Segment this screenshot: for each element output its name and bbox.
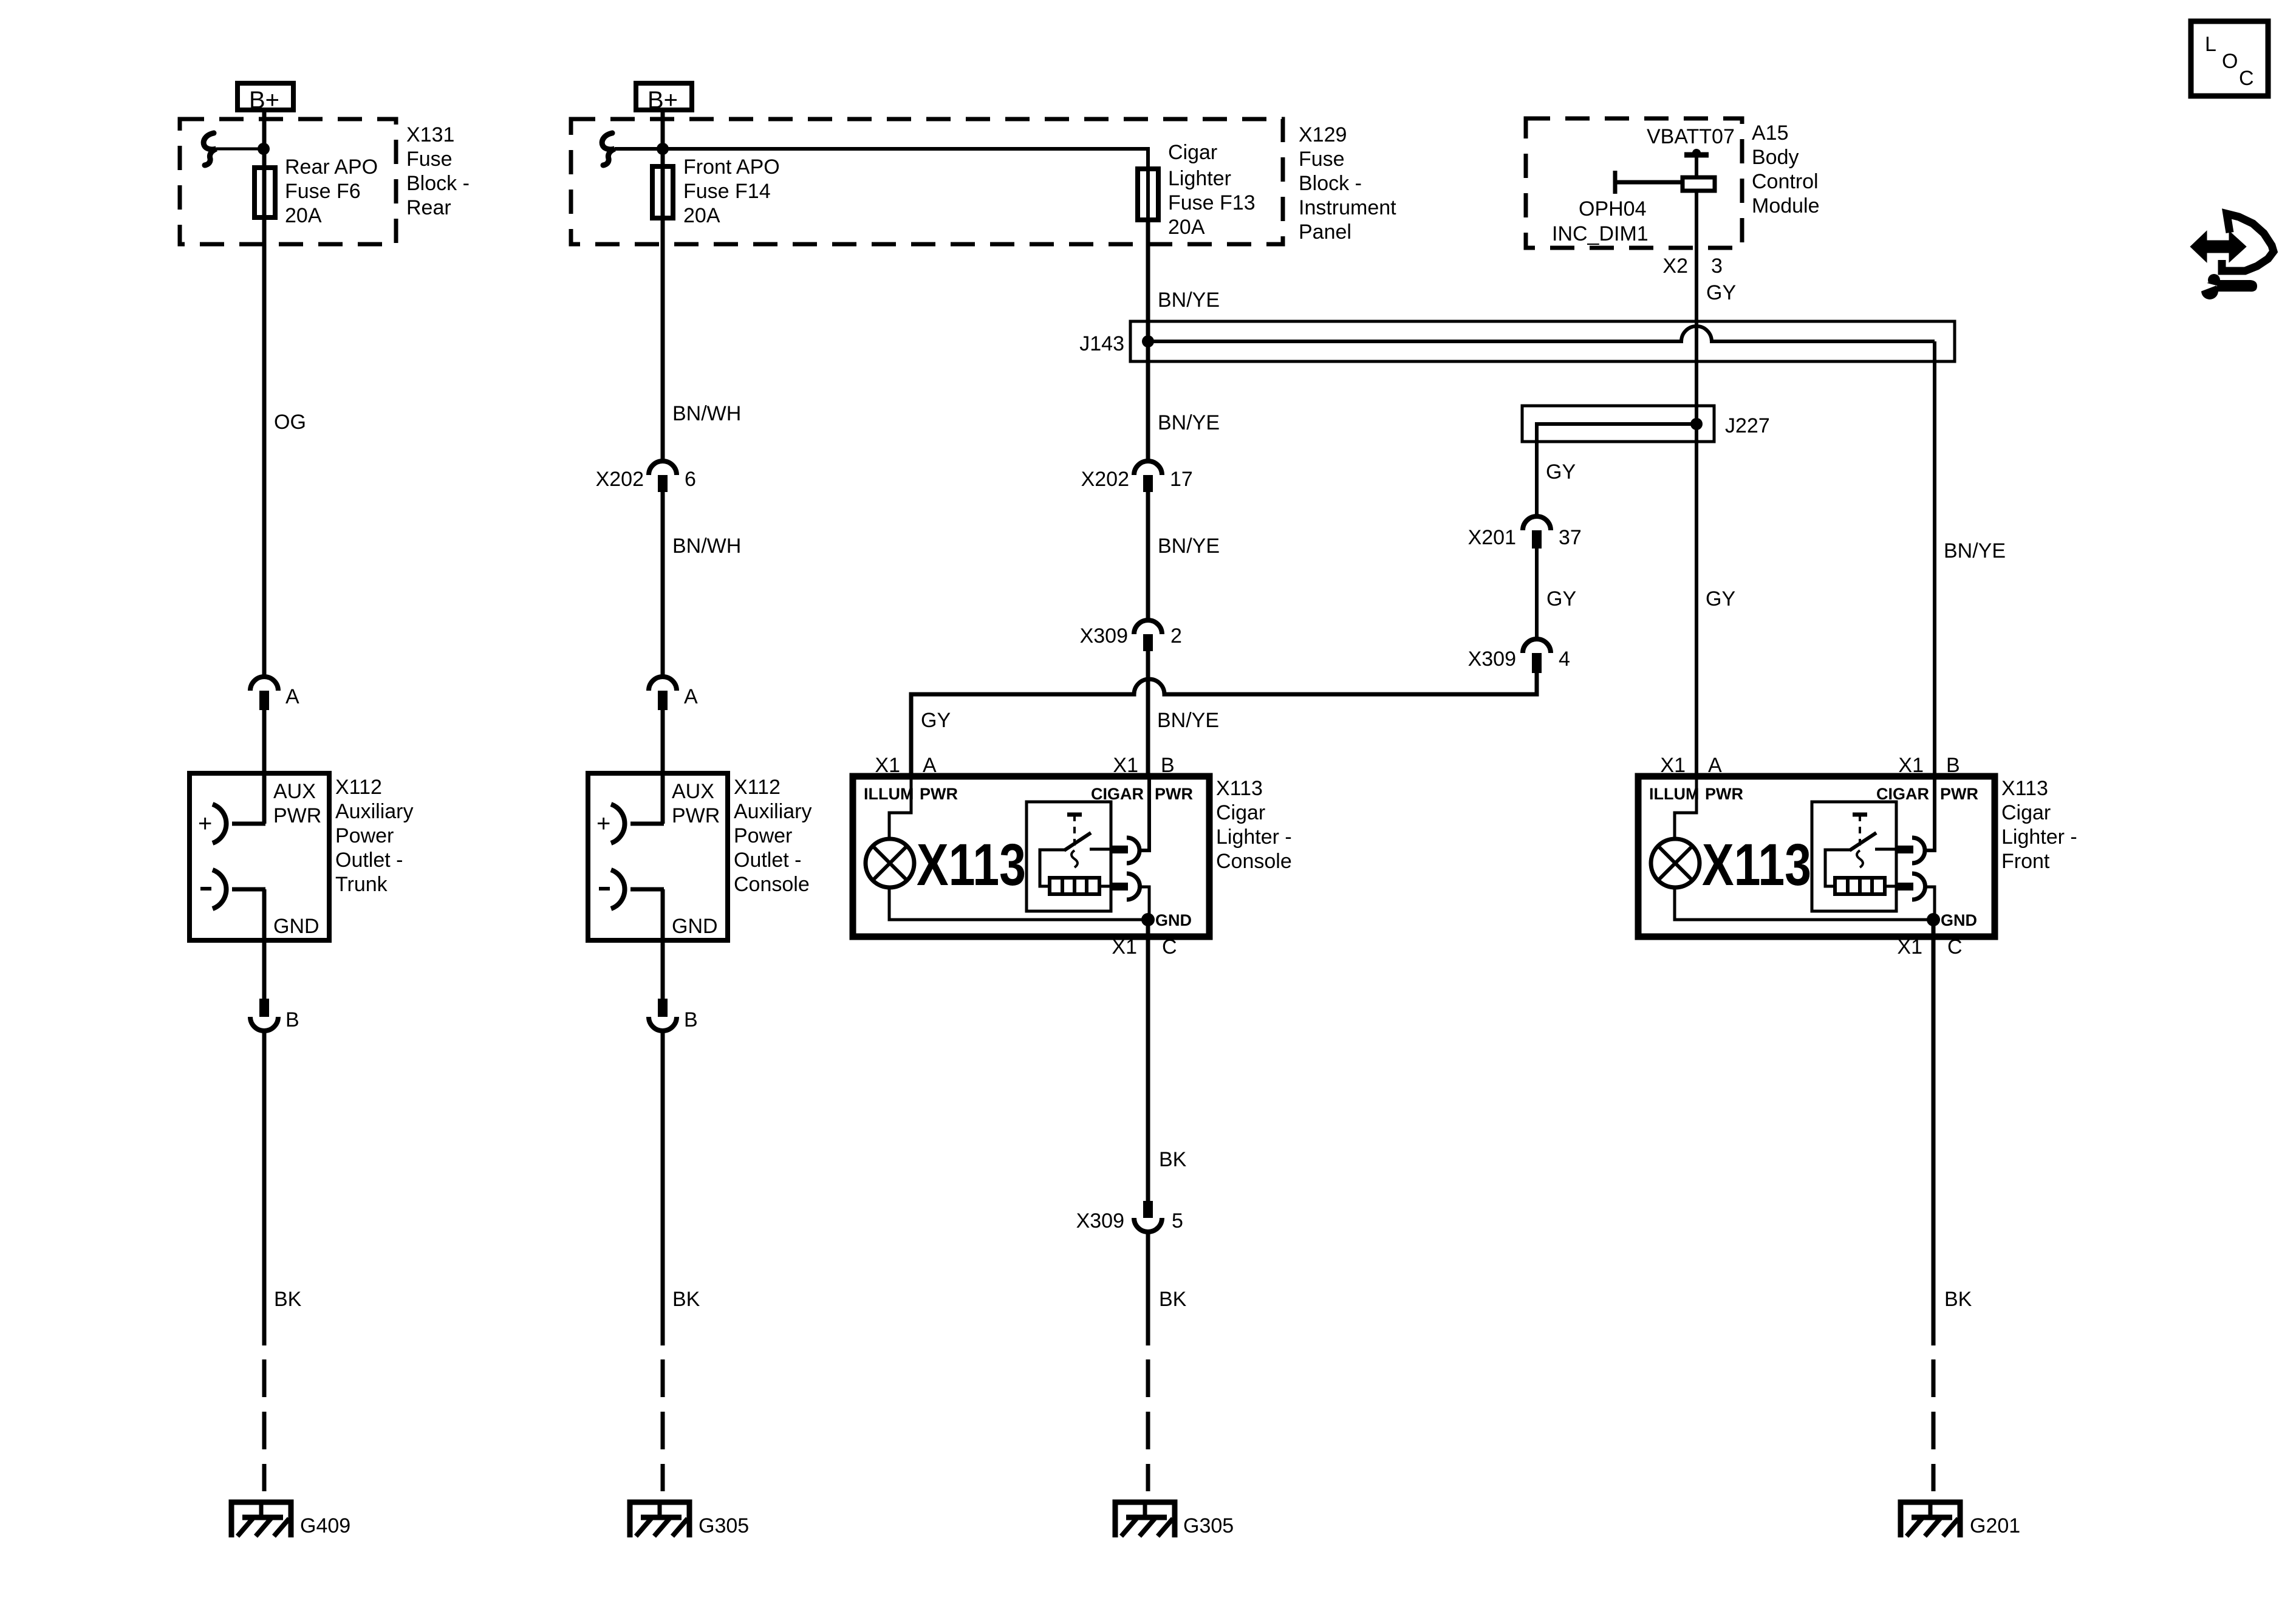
BCM internal input line OPH04 <box>1615 171 1683 194</box>
svg-text:L: L <box>2205 33 2216 56</box>
svg-text:Rear: Rear <box>406 196 451 219</box>
svg-text:B: B <box>285 1008 299 1031</box>
svg-text:BN/WH: BN/WH <box>672 535 741 558</box>
svg-text:X113: X113 <box>1216 777 1263 800</box>
svg-text:G305: G305 <box>1183 1514 1234 1537</box>
svg-text:Trunk: Trunk <box>335 873 388 896</box>
wire GY X309-4 to cigar lighter console pin A, hop over BN/YE <box>911 673 1537 778</box>
svg-text:VBATT07: VBATT07 <box>1647 125 1735 148</box>
X113 front component label <box>2001 777 2077 873</box>
svg-text:BN/WH: BN/WH <box>672 402 741 425</box>
svg-text:GND: GND <box>273 915 319 938</box>
X112 console + contact <box>596 804 664 843</box>
X131 fuse block label <box>406 123 470 219</box>
ground G305 (console) <box>630 1502 689 1537</box>
wire BN/WH fuse F14 to X202 <box>661 220 665 463</box>
svg-text:2: 2 <box>1170 624 1182 648</box>
svg-text:X202: X202 <box>596 468 644 491</box>
svg-text:20A: 20A <box>1168 216 1205 239</box>
splice pack J143 box <box>1130 321 1955 361</box>
svg-text:Auxiliary: Auxiliary <box>335 800 413 823</box>
svg-text:37: 37 <box>1559 526 1582 549</box>
svg-text:BK: BK <box>274 1288 302 1311</box>
X113 console switch blade <box>1064 833 1091 850</box>
X113 console heater element inner box <box>1027 802 1111 911</box>
X112 trunk pin names <box>273 780 321 938</box>
cigar lighter X113 (console) box <box>853 776 1209 937</box>
svg-text:PWR: PWR <box>1705 785 1743 803</box>
svg-text:X1: X1 <box>1897 935 1922 959</box>
svg-text:PWR: PWR <box>672 804 720 827</box>
connector pin B (console ground lead) <box>649 999 677 1031</box>
svg-text:PWR: PWR <box>273 804 321 827</box>
svg-text:PWR: PWR <box>1940 785 1978 803</box>
fuse F6 label <box>285 156 378 227</box>
wire B+ to fuse F14 <box>661 112 665 222</box>
svg-text:J143: J143 <box>1079 332 1124 355</box>
X112 console - contact <box>599 870 664 909</box>
J227 bus wire <box>1537 424 1696 442</box>
svg-text:+: + <box>596 810 610 837</box>
svg-text:BN/YE: BN/YE <box>1158 289 1220 312</box>
connector pin A (X112 console) <box>649 677 677 710</box>
connector X309 pin 2 <box>1134 620 1162 651</box>
svg-text:GY: GY <box>1546 587 1576 610</box>
splice pack J227 box <box>1522 406 1714 442</box>
fuse F14 label <box>683 156 780 227</box>
wire BK X309-5 to ground <box>1146 1231 1150 1345</box>
svg-text:BN/YE: BN/YE <box>1158 411 1220 434</box>
svg-text:Module: Module <box>1752 194 1820 217</box>
svg-text:B+: B+ <box>249 87 279 114</box>
svg-text:X2: X2 <box>1662 255 1688 278</box>
wire BK to ground G305 <box>661 1030 665 1345</box>
svg-text:Outlet -: Outlet - <box>734 849 801 872</box>
X113 front pin B lead <box>1924 779 1935 850</box>
wire GY X201 to X309 <box>1535 549 1539 640</box>
svg-text:Lighter -: Lighter - <box>2001 826 2077 849</box>
svg-text:Block -: Block - <box>406 172 470 195</box>
wire BK X113 front pin C to ground <box>1932 938 1936 1345</box>
wire BN/YE X202 to X309 <box>1146 492 1150 621</box>
svg-text:4: 4 <box>1559 648 1570 671</box>
svg-text:C: C <box>2239 67 2254 90</box>
X113 console lower contact arc <box>1127 873 1140 900</box>
wire hook to junction <box>216 148 264 151</box>
BCM internal supply bar <box>1684 149 1709 177</box>
X113 console pin B lead <box>1138 779 1149 850</box>
auxiliary power outlet X112 (trunk) box <box>190 773 329 940</box>
X113 front switch to heater lead <box>1825 850 1850 886</box>
connector pin B (trunk ground lead) <box>250 999 278 1031</box>
svg-text:OG: OG <box>274 411 306 434</box>
fuse F14 20A (Front APO) <box>652 166 673 218</box>
X113 front lower contact arc <box>1912 873 1925 900</box>
wrench icon <box>2198 274 2257 299</box>
svg-text:X309: X309 <box>1080 624 1128 648</box>
svg-text:GND: GND <box>672 915 718 938</box>
ground G305 (IP) <box>1115 1502 1175 1537</box>
junction node (X129) <box>657 143 669 155</box>
svg-text:Body: Body <box>1752 146 1799 169</box>
X113 console component label <box>1216 777 1292 873</box>
svg-text:GY: GY <box>1706 587 1735 610</box>
fuse block X131 dashed box <box>180 119 396 244</box>
wire BK to ground G409 <box>262 1030 267 1345</box>
X113 console heater coil (segmented) <box>1050 878 1099 894</box>
svg-text:C: C <box>1162 935 1177 959</box>
J143 junction node <box>1142 335 1154 347</box>
svg-text:C: C <box>1947 935 1963 959</box>
X112 trunk + contact <box>198 804 265 843</box>
X113 console pin C lead <box>1146 920 1150 938</box>
wire OG fuse F6 to connector A <box>262 220 267 678</box>
svg-text:Lighter -: Lighter - <box>1216 826 1292 849</box>
svg-text:Block -: Block - <box>1299 172 1362 195</box>
svg-text:Fuse: Fuse <box>1299 148 1345 171</box>
dashed continuation wire <box>1932 1359 1936 1491</box>
junction node (X131) <box>258 143 270 155</box>
svg-text:Fuse F13: Fuse F13 <box>1168 191 1256 214</box>
X112 console internal: pin B lead <box>661 889 665 940</box>
svg-text:Fuse F14: Fuse F14 <box>683 180 771 203</box>
body control module A15 dashed box <box>1526 118 1742 248</box>
connector X202 pin 17 <box>1134 461 1162 492</box>
svg-text:Panel: Panel <box>1299 220 1351 244</box>
dashed continuation wire <box>262 1359 267 1491</box>
svg-text:OPH04: OPH04 <box>1579 197 1647 220</box>
svg-text:BN/YE: BN/YE <box>1157 709 1219 732</box>
svg-text:Power: Power <box>335 824 394 847</box>
svg-text:Cigar: Cigar <box>1168 141 1217 164</box>
X113 console upper contact arc <box>1127 838 1139 863</box>
svg-text:O: O <box>2222 50 2238 73</box>
svg-text:Fuse: Fuse <box>406 148 453 171</box>
svg-text:B+: B+ <box>647 87 678 114</box>
svg-text:BN/YE: BN/YE <box>1158 535 1220 558</box>
X113 front illumination lead <box>1675 779 1696 840</box>
svg-text:X201: X201 <box>1468 526 1516 549</box>
svg-text:X309: X309 <box>1468 648 1516 671</box>
svg-text:X1: X1 <box>1112 935 1137 959</box>
X113 front heater element inner box <box>1812 802 1896 911</box>
X113 front switch blade <box>1850 833 1876 850</box>
connector X309 pin 5 <box>1134 1201 1162 1232</box>
svg-text:Console: Console <box>734 873 810 896</box>
svg-text:GND: GND <box>1941 911 1977 929</box>
diagram-continuation arrow icon <box>2192 214 2274 271</box>
svg-text:BK: BK <box>1159 1148 1187 1171</box>
svg-text:GY: GY <box>1706 281 1736 304</box>
svg-text:X113: X113 <box>2001 777 2048 800</box>
connector X309 pin 4 <box>1523 639 1551 673</box>
X113 console switch to heater lead <box>1040 850 1065 886</box>
connector X201 pin 37 <box>1523 516 1551 549</box>
svg-text:A15: A15 <box>1752 121 1789 145</box>
A15 component label <box>1752 121 1820 217</box>
wire BN/WH X202 to connector A <box>661 492 665 678</box>
svg-text:17: 17 <box>1170 468 1193 491</box>
svg-text:BK: BK <box>1159 1288 1187 1311</box>
svg-text:20A: 20A <box>285 204 322 227</box>
svg-text:AUX: AUX <box>672 780 714 803</box>
wire connector A to X112 trunk <box>262 710 267 776</box>
X113 front illumination lamp <box>1651 839 1700 887</box>
ground G201 <box>1901 1502 1960 1537</box>
wire GY J227 to X201 <box>1535 442 1539 518</box>
svg-text:Control: Control <box>1752 170 1819 193</box>
svg-text:Front: Front <box>2001 850 2050 873</box>
svg-text:X113: X113 <box>917 832 1026 898</box>
fuse block X129 dashed box <box>571 119 1283 244</box>
wire BN/YE J143 to cigar lighter front (right leg) <box>1933 341 1936 778</box>
svg-text:X112: X112 <box>734 776 781 799</box>
X113 front lower contact to GND <box>1924 887 1935 920</box>
X113 front GND junction node <box>1927 913 1940 926</box>
svg-text:Instrument: Instrument <box>1299 196 1396 219</box>
svg-text:Outlet -: Outlet - <box>335 849 403 872</box>
X112 console pin names <box>672 780 720 938</box>
svg-text:G201: G201 <box>1970 1514 2020 1537</box>
power feed B+ (rear) <box>237 83 293 114</box>
svg-text:G409: G409 <box>300 1514 350 1537</box>
svg-text:PWR: PWR <box>920 785 958 803</box>
LOC page-locator icon <box>2191 21 2268 96</box>
svg-text:Console: Console <box>1216 850 1292 873</box>
svg-text:Lighter: Lighter <box>1168 167 1231 190</box>
svg-text:3: 3 <box>1711 255 1723 278</box>
svg-text:X112: X112 <box>335 776 382 799</box>
dashed continuation wire <box>661 1359 665 1491</box>
svg-text:A: A <box>684 685 698 708</box>
svg-text:AUX: AUX <box>273 780 316 803</box>
wire B+ to fuse F6 <box>262 112 267 221</box>
X113 console lamp to GND lead <box>889 886 1148 920</box>
svg-text:Front APO: Front APO <box>683 156 780 179</box>
wire GY BCM to cigar lighter front pin A <box>1695 191 1698 778</box>
X129 fuse block label <box>1299 123 1396 244</box>
power feed B+ (front) <box>636 83 692 114</box>
dashed continuation wire <box>1146 1359 1150 1491</box>
X112 console component label <box>734 776 811 896</box>
svg-text:B: B <box>684 1008 698 1031</box>
X113 front upper contact lead + stub <box>1875 846 1913 853</box>
BCM driver block <box>1683 177 1715 191</box>
wire X112 console to connector B <box>661 940 665 1000</box>
connector X202 pin 6 <box>649 461 677 492</box>
X113 console GND junction node <box>1141 913 1155 926</box>
svg-text:20A: 20A <box>683 204 720 227</box>
wire BN/YE fuse F13 to J143 <box>1146 222 1150 463</box>
svg-text:Power: Power <box>734 824 792 847</box>
X113 console thermal T symbol <box>1067 815 1082 867</box>
svg-text:ILLUM: ILLUM <box>1649 785 1699 803</box>
svg-text:BN/YE: BN/YE <box>1944 539 2006 562</box>
X112 trunk component label <box>335 776 413 896</box>
svg-text:Rear APO: Rear APO <box>285 156 378 179</box>
wire connector A to X112 console <box>661 710 665 776</box>
ground G409 <box>231 1502 291 1537</box>
fuse F6 20A (Rear APO) <box>255 168 275 217</box>
X113 front lower contact lead + stub <box>1885 883 1913 891</box>
J143 bus wire with hop over GY <box>1148 326 1935 341</box>
svg-text:PWR: PWR <box>1155 785 1193 803</box>
fusible link hook (X129) <box>602 133 615 165</box>
J227 junction node <box>1690 418 1703 430</box>
X113 front heater coil (segmented) <box>1835 878 1885 894</box>
svg-text:A: A <box>285 685 299 708</box>
svg-text:G305: G305 <box>699 1514 749 1537</box>
X113 console illumination lamp <box>866 839 914 887</box>
svg-text:J227: J227 <box>1725 414 1770 437</box>
svg-text:Fuse F6: Fuse F6 <box>285 180 361 203</box>
svg-text:BK: BK <box>672 1288 700 1311</box>
auxiliary power outlet X112 (console) box <box>588 773 728 940</box>
X112 trunk internal: pin A lead <box>262 776 267 824</box>
wire X112 trunk to connector B <box>262 940 267 1000</box>
svg-text:X309: X309 <box>1076 1209 1124 1232</box>
svg-text:GND: GND <box>1155 911 1192 929</box>
svg-text:X131: X131 <box>406 123 454 146</box>
X112 trunk internal: pin B lead <box>262 889 267 940</box>
svg-text:ILLUM: ILLUM <box>864 785 914 803</box>
svg-text:X129: X129 <box>1299 123 1347 146</box>
X113 front thermal T symbol <box>1853 815 1867 867</box>
svg-text:Auxiliary: Auxiliary <box>734 800 811 823</box>
svg-text:GY: GY <box>921 709 951 732</box>
X112 trunk - contact <box>200 870 265 909</box>
X113 console illumination lead <box>889 779 911 840</box>
wire BK X113 console pin C down <box>1146 938 1150 1201</box>
svg-text:5: 5 <box>1172 1209 1183 1232</box>
X113 console lower contact lead + stub <box>1099 883 1128 891</box>
wire BN/YE X309-2 to cigar lighter console pin B <box>1146 651 1150 778</box>
svg-text:X113: X113 <box>1702 832 1811 898</box>
connector pin A (X112 trunk) <box>250 677 278 710</box>
cigar lighter X113 (front) box <box>1638 776 1995 937</box>
svg-text:+: + <box>198 810 212 837</box>
svg-text:BK: BK <box>1944 1288 1972 1311</box>
svg-text:INC_DIM1: INC_DIM1 <box>1552 222 1649 245</box>
svg-text:6: 6 <box>685 468 696 491</box>
fuse F13 20A (Cigar Lighter) <box>1138 169 1158 220</box>
X112 console internal: pin A lead <box>661 776 665 824</box>
X113 front upper contact arc <box>1912 838 1925 863</box>
X113 front lamp to GND lead <box>1675 886 1933 920</box>
X113 console upper contact lead + stub <box>1090 846 1128 853</box>
X113 console lower contact to GND <box>1138 887 1149 920</box>
X113 front pin C lead <box>1932 920 1936 938</box>
svg-text:GY: GY <box>1546 460 1576 484</box>
fusible link hook (X131) <box>203 133 216 165</box>
svg-text:Cigar: Cigar <box>1216 801 1265 824</box>
svg-text:X202: X202 <box>1081 468 1129 491</box>
svg-text:Cigar: Cigar <box>2001 801 2051 824</box>
bus wire hook to fuse F13 <box>615 149 1148 224</box>
fuse F13 label <box>1168 141 1256 239</box>
